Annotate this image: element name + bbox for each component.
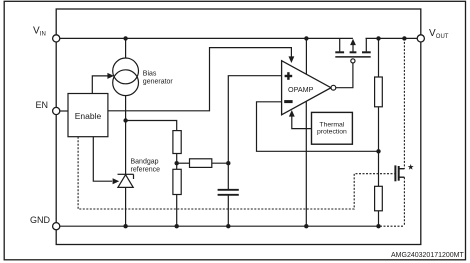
svg-text:IN: IN	[40, 31, 46, 37]
svg-text:Bias: Bias	[143, 70, 157, 77]
svg-text:Bandgap: Bandgap	[131, 158, 159, 165]
svg-text:EN: EN	[36, 100, 49, 110]
svg-text:Thermal: Thermal	[319, 121, 344, 128]
svg-text:protection: protection	[317, 129, 347, 136]
svg-text:GND: GND	[30, 215, 51, 225]
svg-text:generator: generator	[143, 79, 174, 86]
svg-text:reference: reference	[131, 167, 161, 174]
svg-text:OUT: OUT	[436, 34, 449, 40]
svg-text:AMG240320171200MT: AMG240320171200MT	[391, 252, 464, 259]
svg-text:Enable: Enable	[75, 111, 102, 121]
svg-text:OPAMP: OPAMP	[288, 85, 314, 94]
